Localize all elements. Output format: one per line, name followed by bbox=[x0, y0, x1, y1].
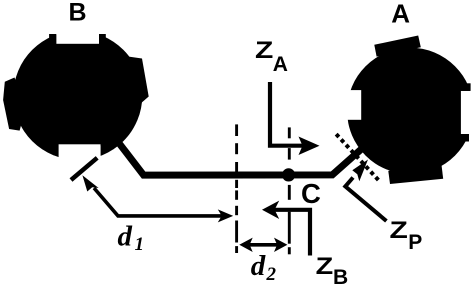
dotted line Z_P (osteotomy plane) bbox=[336, 134, 379, 181]
tick mark near B bbox=[71, 158, 97, 180]
dashed reference line 2 (right, at x=289) bbox=[288, 127, 291, 254]
Z_A arrow bbox=[270, 82, 306, 146]
node C bbox=[282, 168, 295, 181]
Z_P label bbox=[390, 216, 408, 243]
right bottom post bbox=[461, 134, 469, 142]
top notch bbox=[56, 20, 99, 44]
svg-text:Z: Z bbox=[316, 252, 334, 279]
left notch bbox=[337, 90, 361, 120]
right top post bbox=[461, 83, 471, 91]
bottom-right post bbox=[101, 135, 120, 152]
svg-text:A: A bbox=[391, 0, 410, 29]
top-right post bbox=[99, 34, 106, 50]
svg-text:d: d bbox=[251, 250, 266, 282]
svg-text:d: d bbox=[118, 221, 133, 253]
svg-text:B: B bbox=[333, 266, 348, 287]
bottom tab bbox=[388, 161, 443, 184]
Z_A label bbox=[255, 36, 273, 63]
svg-text:Z: Z bbox=[255, 36, 273, 63]
Z_B label bbox=[316, 252, 334, 279]
right tab bbox=[124, 57, 149, 105]
svg-text:C: C bbox=[301, 178, 321, 209]
top-left post bbox=[49, 34, 56, 50]
svg-text:P: P bbox=[408, 231, 422, 254]
top tab bbox=[374, 36, 421, 57]
right notch bbox=[461, 91, 474, 134]
d2 dimension arrows bbox=[248, 243, 279, 247]
dashed reference line 1 (left, at x=237) bbox=[235, 124, 238, 253]
svg-text:B: B bbox=[69, 0, 87, 26]
svg-text:A: A bbox=[273, 53, 288, 76]
wire from B to A bbox=[112, 134, 373, 175]
d1 dimension arrow bbox=[94, 188, 224, 216]
svg-text:Z: Z bbox=[390, 216, 408, 243]
Z_P arrow bbox=[345, 178, 386, 222]
svg-text:2: 2 bbox=[266, 264, 277, 285]
bone/gear B bbox=[3, 20, 149, 174]
bottom notch bbox=[59, 144, 101, 174]
bone/gear A bbox=[337, 36, 474, 185]
Z_B arrow bbox=[272, 210, 310, 256]
left tab bbox=[3, 78, 26, 131]
svg-text:1: 1 bbox=[135, 234, 145, 255]
